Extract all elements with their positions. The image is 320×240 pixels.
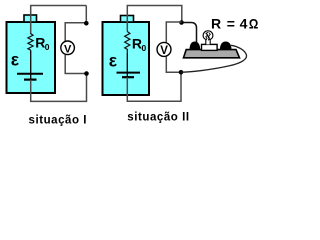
wire right-down to voltmeter I	[65, 6, 86, 42]
svg-text:Ω: Ω	[249, 16, 258, 32]
wire battery to bottom II	[127, 57, 181, 102]
wire resistor to battery I	[30, 51, 32, 80]
svg-text:=: =	[227, 16, 235, 32]
curved wire lamp to bottom node II	[181, 45, 247, 72]
node dot bottom I	[84, 71, 89, 76]
node dot top II	[179, 20, 184, 25]
left binding post	[190, 42, 201, 50]
svg-text:situação I: situação I	[29, 115, 88, 127]
svg-text:R: R	[132, 35, 142, 51]
svg-text:0: 0	[45, 42, 50, 52]
battery long plate I	[17, 73, 43, 75]
battery long plate II	[117, 72, 141, 74]
battery box (situação I)	[7, 22, 56, 93]
resistor R0 (box I)	[28, 34, 33, 51]
node dot bottom II	[179, 70, 184, 75]
wire dot to voltmeter II	[166, 22, 181, 42]
battery box (situação II)	[103, 22, 150, 95]
right binding post	[220, 42, 232, 50]
voltmeter V (situação I)	[61, 41, 75, 55]
terminal on box II	[121, 16, 134, 23]
svg-text:V: V	[160, 45, 168, 57]
voltmeter V (situação II)	[157, 42, 171, 56]
wire battery to bottom I	[31, 55, 87, 102]
node dot top I	[84, 21, 89, 26]
svg-text:4: 4	[240, 16, 248, 32]
wire top II	[127, 6, 182, 32]
svg-text:V: V	[64, 44, 72, 56]
svg-text:R: R	[211, 16, 221, 32]
terminal on box I	[24, 15, 37, 22]
svg-text:R: R	[35, 35, 45, 51]
lamp bulb globe	[203, 31, 213, 45]
wire dot to lamp post II	[184, 23, 197, 43]
lamp filament	[206, 32, 210, 40]
battery short plate II	[122, 76, 134, 78]
battery short plate I	[24, 78, 37, 80]
svg-text:ε: ε	[109, 51, 118, 71]
lamp platform	[184, 50, 240, 58]
svg-text:ε: ε	[11, 50, 20, 70]
resistor R0 (box II)	[125, 32, 130, 54]
svg-text:situação II: situação II	[127, 112, 189, 124]
lamp socket	[202, 44, 218, 50]
svg-text:0: 0	[142, 43, 147, 53]
wire resistor to battery II	[126, 53, 128, 77]
wire top I	[31, 6, 87, 35]
